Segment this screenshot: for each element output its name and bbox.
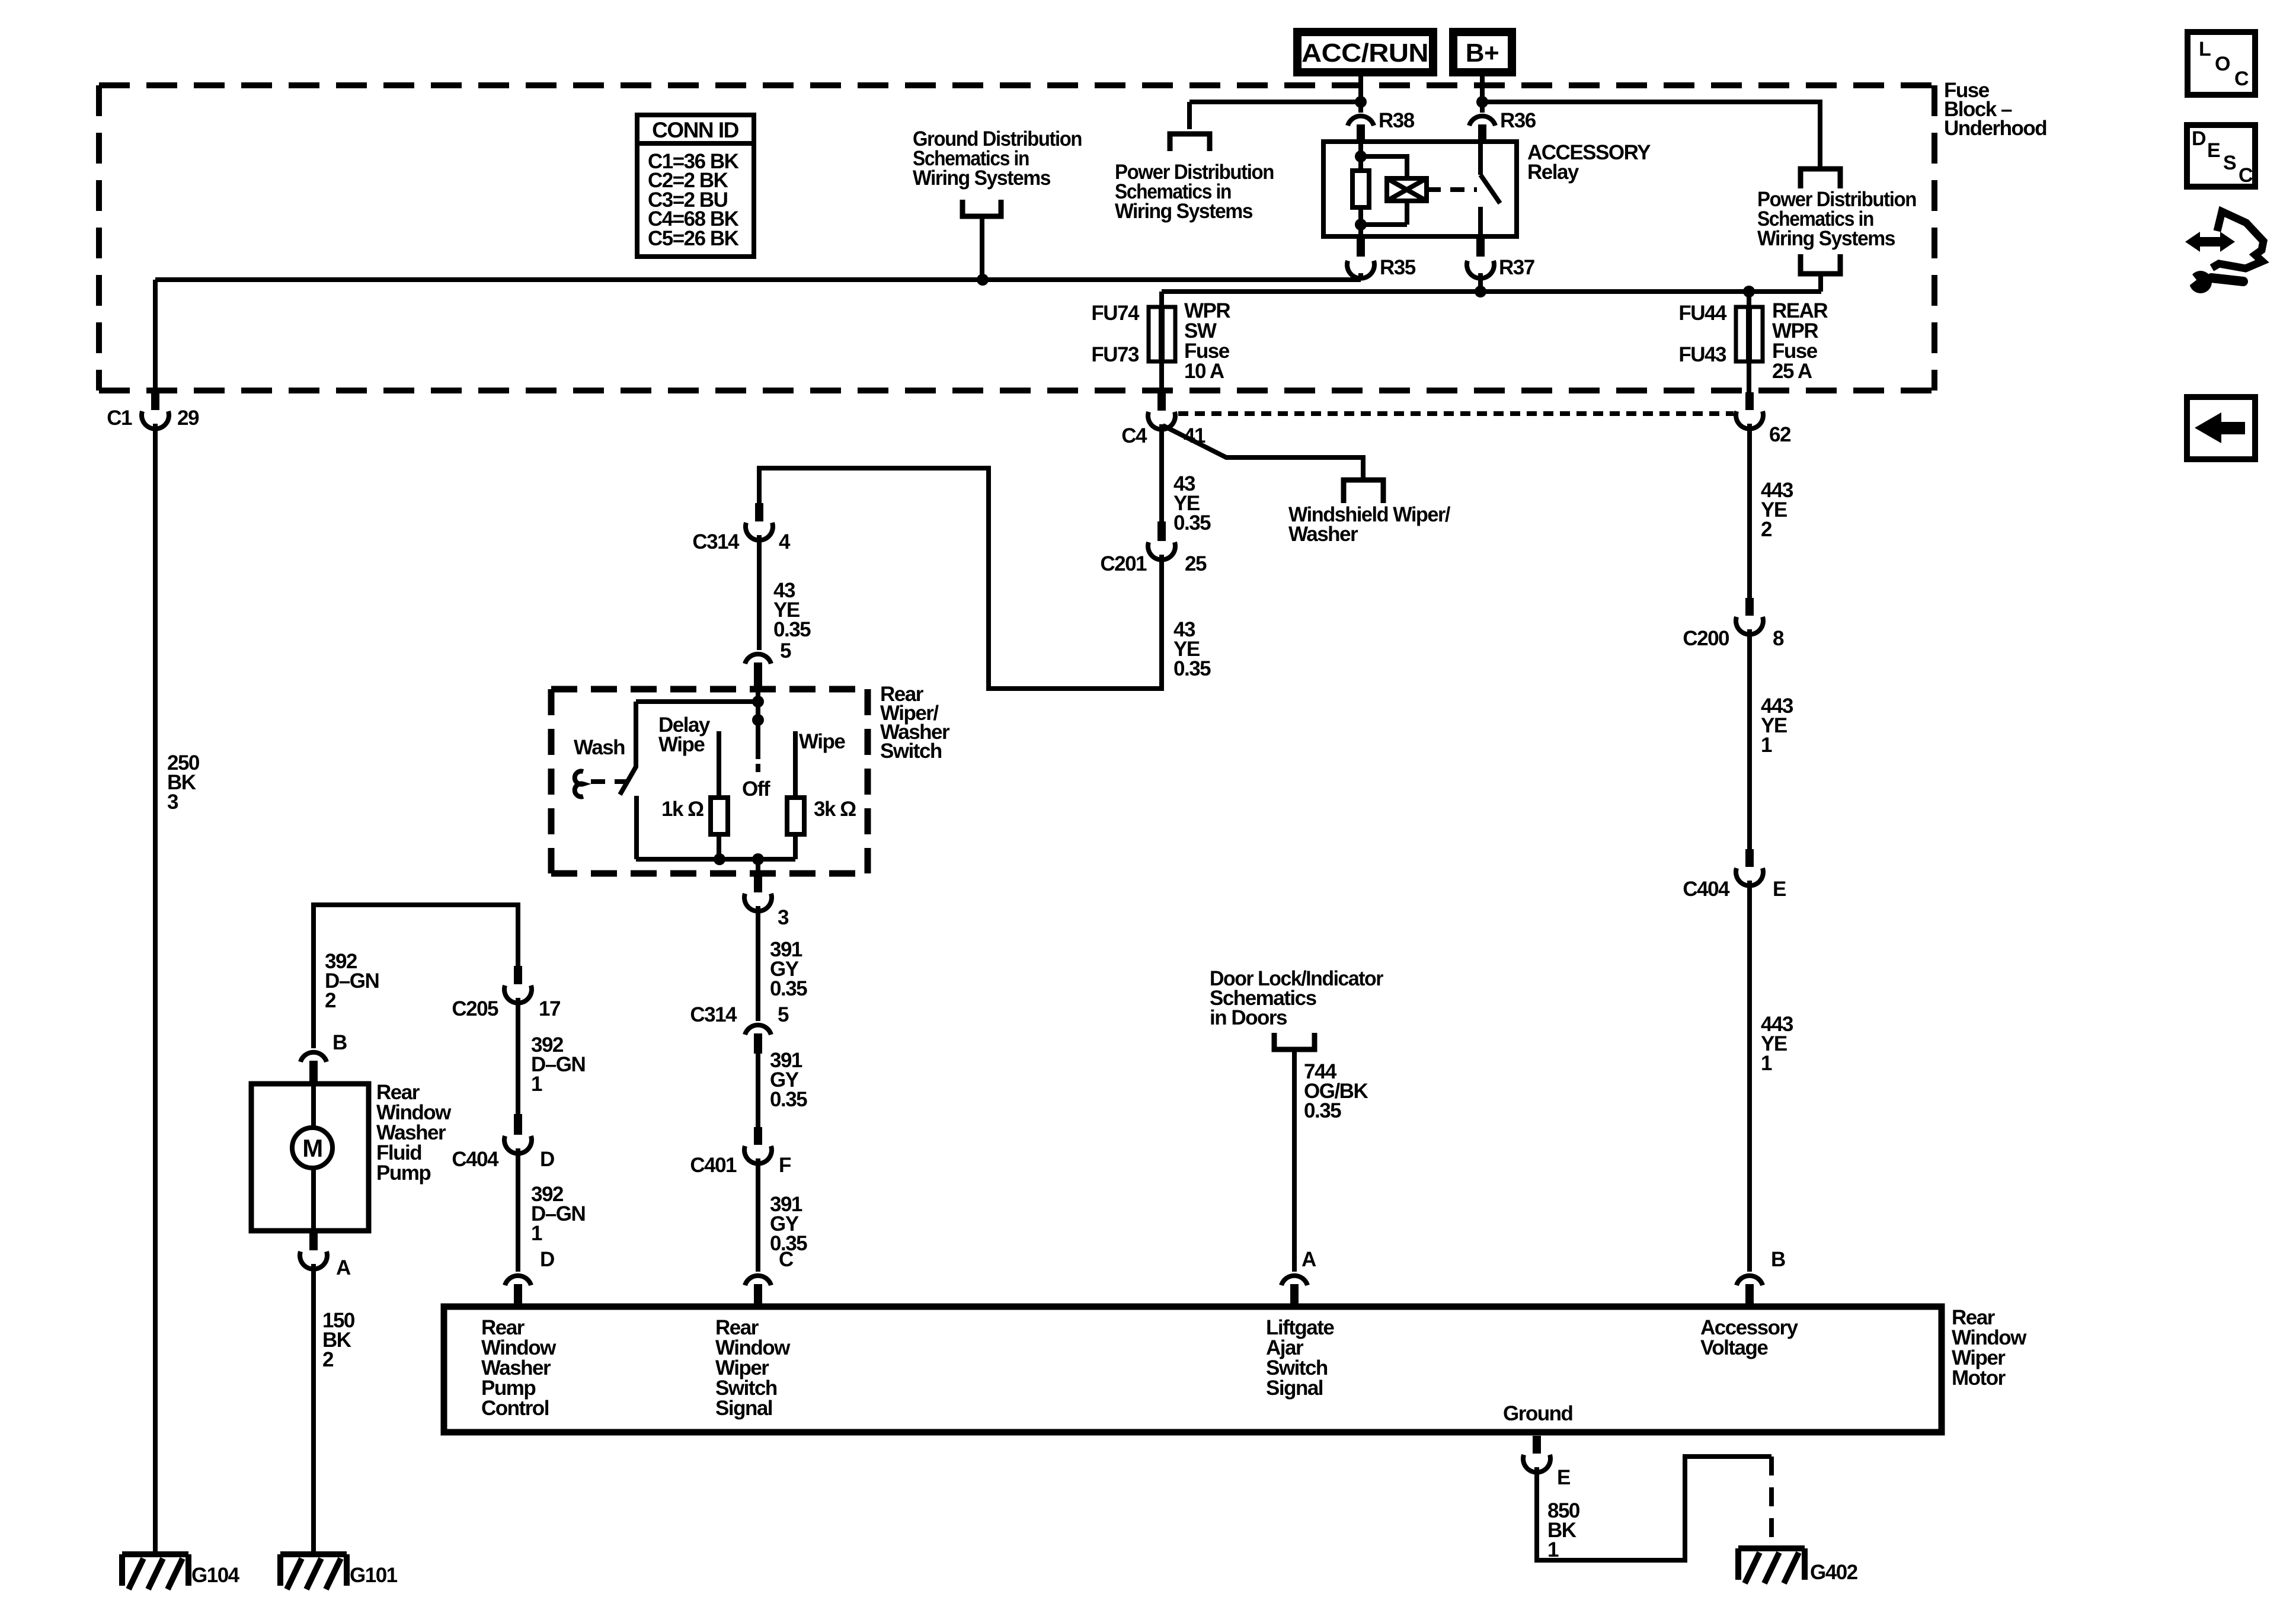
connector R36 <box>1469 116 1495 126</box>
svg-text:8: 8 <box>1773 627 1784 650</box>
connector A at motor box <box>1281 1276 1307 1285</box>
svg-text:5: 5 <box>778 1003 789 1026</box>
wire C404 to motor box D <box>516 1148 520 1272</box>
svg-text:2: 2 <box>325 989 336 1012</box>
relay switch fixed contact <box>1478 142 1483 175</box>
relay switch blade <box>1480 175 1500 203</box>
wire right power stub to bus <box>1818 274 1823 292</box>
svg-text:D: D <box>540 1148 554 1171</box>
svg-text:C: C <box>2239 164 2253 187</box>
connector B at pump <box>300 1052 327 1062</box>
svg-text:1: 1 <box>1761 1052 1772 1075</box>
svg-text:41: 41 <box>1184 424 1205 447</box>
relay coil <box>1387 178 1427 201</box>
switch bottom rail <box>636 857 795 862</box>
off-page bracket power distribution right top <box>1801 169 1840 188</box>
svg-text:29: 29 <box>177 406 199 430</box>
connector B at motor box <box>1737 1276 1763 1285</box>
node at R38 <box>1355 96 1367 108</box>
svg-text:E: E <box>1773 878 1786 901</box>
svg-text:10 A: 10 A <box>1184 360 1224 383</box>
wire C200 to C404 E <box>1747 629 1752 849</box>
svg-text:Wipe: Wipe <box>799 730 845 753</box>
ground G402 <box>1738 1548 1805 1583</box>
svg-text:ACC/RUN: ACC/RUN <box>1302 39 1428 68</box>
wire resistor bottom <box>1358 207 1363 236</box>
svg-text:S: S <box>2223 152 2237 174</box>
svg-text:5: 5 <box>780 639 791 662</box>
node relay top <box>1355 151 1367 162</box>
svg-text:1: 1 <box>531 1222 542 1245</box>
node at R36 <box>1476 96 1488 108</box>
svg-text:G101: G101 <box>350 1564 398 1587</box>
connector R38 <box>1348 116 1374 126</box>
ground G104 <box>122 1554 188 1589</box>
wire R38 node to power stub <box>1189 100 1361 104</box>
svg-text:3: 3 <box>167 790 178 814</box>
wire C4 down to C201 <box>1159 424 1164 521</box>
svg-text:Switch: Switch <box>880 740 942 763</box>
node ground stub junction <box>977 274 989 286</box>
svg-text:G104: G104 <box>191 1564 240 1587</box>
wire C201 down left up left to C314 <box>759 468 1162 689</box>
fuse block underhood dashed box <box>99 85 1934 391</box>
svg-text:3: 3 <box>778 906 789 929</box>
connector C4 pin 41 <box>1157 392 1166 411</box>
fuse FU44 REAR WPR <box>1747 292 1751 307</box>
svg-text:C205: C205 <box>452 997 498 1020</box>
switch top rail <box>636 699 758 704</box>
svg-text:E: E <box>2207 139 2221 162</box>
wire power stub middle drop <box>1187 102 1192 129</box>
svg-text:O: O <box>2215 53 2230 75</box>
connector C401 pin F <box>754 1127 762 1145</box>
svg-text:Wiring Systems: Wiring Systems <box>1757 227 1895 250</box>
node switch off branch <box>752 714 764 726</box>
pump motor circle <box>292 1128 332 1168</box>
svg-text:C1: C1 <box>107 406 132 430</box>
off-page bracket power distribution middle <box>1170 134 1210 151</box>
svg-text:A: A <box>336 1256 351 1279</box>
svg-text:G402: G402 <box>1810 1561 1858 1584</box>
svg-text:FU43: FU43 <box>1678 343 1726 366</box>
connector 5 at switch <box>745 654 771 664</box>
svg-text:M: M <box>302 1134 322 1162</box>
wire ground stub to junction <box>980 216 984 280</box>
wire F to C <box>756 1158 760 1272</box>
wire FU74 to C4 <box>1159 361 1164 392</box>
svg-text:Pump: Pump <box>376 1161 430 1185</box>
dotted inline connector line C4 to 62 <box>1178 411 1734 416</box>
wash actuator dashed <box>591 779 629 784</box>
wire C314-5 to C401 <box>756 1054 760 1127</box>
svg-text:C5=26 BK: C5=26 BK <box>648 227 739 250</box>
svg-text:Underhood: Underhood <box>1944 117 2046 140</box>
svg-text:R35: R35 <box>1380 256 1416 279</box>
svg-text:Wash: Wash <box>574 736 625 759</box>
connector C at motor box <box>745 1276 771 1285</box>
off contact dash <box>756 764 760 772</box>
wire liftgate ajar signal <box>1292 1049 1297 1272</box>
wash lower contact stub <box>634 796 639 859</box>
svg-text:0.35: 0.35 <box>770 1088 807 1111</box>
svg-text:C4: C4 <box>1121 424 1147 447</box>
svg-text:1: 1 <box>1761 734 1772 757</box>
rear wiper/washer switch dashed box <box>551 689 868 873</box>
wire C314-4 to 5 <box>757 535 762 650</box>
1k resistor branch wire top <box>717 731 721 798</box>
pump wires inside <box>311 1084 316 1231</box>
relay coil branch wires <box>1361 156 1407 225</box>
svg-text:Wiring Systems: Wiring Systems <box>913 167 1051 190</box>
svg-text:C404: C404 <box>1683 878 1730 901</box>
connector C404 pin E <box>1745 849 1754 867</box>
wire 3 to C314-5 <box>756 906 760 1021</box>
accessory relay box <box>1323 142 1517 236</box>
node switch top <box>752 696 764 708</box>
connector C314 pin 4 <box>755 503 763 521</box>
door lock off-page bracket <box>1274 1033 1315 1049</box>
wash momentary contact symbol <box>575 772 583 797</box>
svg-text:25: 25 <box>1185 552 1207 575</box>
wire switch common <box>756 686 760 759</box>
svg-text:C200: C200 <box>1683 627 1729 650</box>
wire bus corner down to FU74 <box>1159 292 1164 307</box>
wire horizontal y472 C1 to R35 <box>155 277 1361 282</box>
node 1k bottom <box>714 853 725 865</box>
svg-text:A: A <box>1302 1248 1316 1271</box>
svg-text:0.35: 0.35 <box>1173 657 1211 680</box>
svg-text:2: 2 <box>1761 518 1772 541</box>
dashed wire to G402 <box>1769 1457 1774 1548</box>
connector C1 pin 29 <box>151 392 159 410</box>
relay coil feed wire <box>1358 142 1363 171</box>
svg-text:in Doors: in Doors <box>1210 1006 1287 1029</box>
svg-text:B: B <box>1771 1248 1785 1271</box>
svg-text:Off: Off <box>742 777 770 801</box>
wire ACC/RUN to relay R38 <box>1358 76 1363 113</box>
wire R36 node to right power stub <box>1482 102 1820 167</box>
B+ box <box>1453 32 1512 72</box>
connector E ground pin <box>1533 1436 1541 1454</box>
wire left column down to C1 <box>153 280 158 392</box>
svg-text:FU44: FU44 <box>1678 302 1727 325</box>
svg-text:Ground: Ground <box>1503 1402 1572 1425</box>
switch blade <box>620 702 636 795</box>
svg-text:C314: C314 <box>690 1003 737 1026</box>
wire C404 E to motor box B <box>1747 881 1752 1272</box>
svg-text:D: D <box>540 1248 554 1271</box>
svg-text:2: 2 <box>322 1348 334 1371</box>
svg-text:0.35: 0.35 <box>773 618 811 641</box>
svg-text:B+: B+ <box>1466 39 1499 68</box>
rear window washer fluid pump box <box>251 1084 369 1231</box>
svg-text:Motor: Motor <box>1952 1366 2006 1390</box>
connector C314 pin 5 lower <box>745 1025 771 1035</box>
relay actuator dashed <box>1427 187 1477 192</box>
wire C1 down to G104 <box>153 424 158 1554</box>
connector C205 pin 17 <box>514 966 522 984</box>
wire 850 BK 1 <box>1537 1457 1771 1560</box>
wire 62 to C200 <box>1747 424 1752 598</box>
wire bus y492 <box>1162 289 1821 294</box>
connector 62 <box>1745 392 1754 410</box>
icon DESC box <box>2187 125 2255 187</box>
ground G101 <box>280 1554 347 1589</box>
svg-text:R36: R36 <box>1500 109 1536 132</box>
connector C404 pin D <box>514 1114 522 1135</box>
node relay bottom <box>1355 219 1367 231</box>
node FU44 top <box>1743 286 1755 297</box>
svg-text:C404: C404 <box>452 1148 499 1171</box>
connector A at pump <box>309 1231 318 1250</box>
svg-text:R37: R37 <box>1499 256 1534 279</box>
connector R37 <box>1476 235 1485 257</box>
fuse FU74 WPR SW <box>1149 307 1175 361</box>
svg-text:1k Ω: 1k Ω <box>661 798 703 821</box>
svg-text:3k Ω: 3k Ω <box>814 798 856 821</box>
svg-text:Signal: Signal <box>715 1397 772 1420</box>
svg-text:R38: R38 <box>1379 109 1415 132</box>
svg-text:1: 1 <box>1547 1538 1559 1561</box>
svg-text:Signal: Signal <box>1266 1377 1323 1400</box>
ground distribution bracket <box>962 200 1001 216</box>
svg-text:B: B <box>332 1031 347 1054</box>
connector C201 pin 25 <box>1157 521 1166 541</box>
ACC/RUN box <box>1297 32 1433 72</box>
svg-text:L: L <box>2199 38 2211 60</box>
resistor 3k <box>787 798 804 834</box>
svg-text:CONN ID: CONN ID <box>652 118 739 142</box>
svg-text:F: F <box>779 1154 791 1177</box>
svg-text:C401: C401 <box>690 1154 737 1177</box>
resistor 1k <box>711 798 728 834</box>
svg-text:17: 17 <box>539 997 560 1020</box>
svg-text:D: D <box>2192 127 2207 150</box>
3k resistor branch wire top <box>793 731 798 798</box>
svg-text:Wiring Systems: Wiring Systems <box>1115 200 1253 223</box>
svg-text:Voltage: Voltage <box>1700 1336 1768 1359</box>
svg-text:0.35: 0.35 <box>1304 1099 1341 1122</box>
svg-text:C: C <box>779 1248 794 1271</box>
svg-text:0.35: 0.35 <box>1173 511 1211 534</box>
wire B+ to relay R36 <box>1480 76 1485 113</box>
CONN ID table box <box>637 115 754 257</box>
svg-text:Washer: Washer <box>1288 523 1358 546</box>
icon LOC box <box>2188 32 2255 95</box>
connector C200 pin 8 <box>1745 598 1754 616</box>
relay resistor <box>1352 171 1369 207</box>
wire 41 diagonal to windshield stub <box>1163 425 1363 478</box>
svg-text:FU74: FU74 <box>1091 302 1140 325</box>
connector 3 below switch <box>754 875 762 892</box>
svg-text:1: 1 <box>531 1073 542 1096</box>
svg-text:4: 4 <box>779 530 791 553</box>
svg-text:C: C <box>2234 68 2249 90</box>
connector D at motor box <box>505 1276 531 1285</box>
wire C205 to C404 <box>516 998 520 1114</box>
svg-text:Wipe: Wipe <box>658 733 705 756</box>
icon back arrow box <box>2187 397 2255 459</box>
connector R35 <box>1357 235 1365 257</box>
off-page bracket power distribution right bottom <box>1801 254 1840 274</box>
node R37 bus <box>1475 286 1486 297</box>
icon back arrow <box>2195 412 2221 443</box>
pump feed corner wire <box>314 905 518 1048</box>
wire A down to G101 <box>311 1264 316 1554</box>
svg-text:FU73: FU73 <box>1091 343 1139 366</box>
svg-text:C314: C314 <box>692 530 740 553</box>
svg-text:62: 62 <box>1769 423 1791 446</box>
svg-text:C201: C201 <box>1100 552 1147 575</box>
svg-text:E: E <box>1557 1466 1570 1489</box>
rear window wiper motor box <box>444 1307 1942 1432</box>
svg-text:0.35: 0.35 <box>770 977 807 1000</box>
node pin3 rail <box>752 853 764 865</box>
svg-text:Relay: Relay <box>1527 161 1579 184</box>
icon wrench double arrow <box>2182 212 2263 293</box>
wire rail to pin 3 <box>756 859 760 875</box>
svg-text:Control: Control <box>481 1397 549 1420</box>
svg-text:25 A: 25 A <box>1772 360 1812 383</box>
relay switch lower contact <box>1478 207 1483 236</box>
off-page bracket windshield wiper/washer <box>1344 480 1383 503</box>
